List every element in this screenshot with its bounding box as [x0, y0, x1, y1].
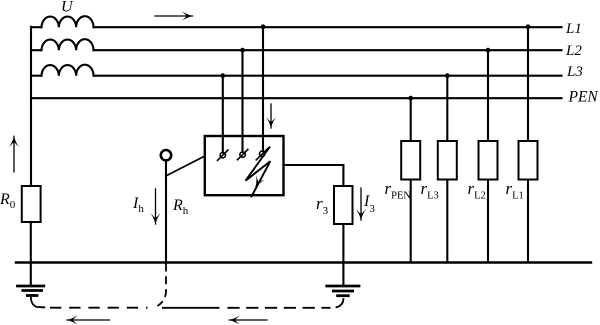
- contact c2: [237, 149, 248, 159]
- current arrow I3: [360, 188, 362, 220]
- tap wire rL3: [446, 76, 448, 141]
- tap wire rPEN: [410, 98, 412, 141]
- tap wire to enclosure from L3: [222, 76, 224, 153]
- junction dots: [220, 24, 530, 100]
- fault lightning arrow: [246, 147, 271, 196]
- up arrow left: [13, 136, 15, 172]
- resistor rL2: [479, 141, 498, 180]
- hook left ground to path: [31, 298, 45, 308]
- wire line PEN: [31, 97, 562, 99]
- tap wire to enclosure from L2: [241, 50, 243, 152]
- resistor rL3: [438, 141, 457, 180]
- winding L3: [42, 65, 94, 76]
- resistor r3: [334, 186, 353, 224]
- resistor R0: [22, 186, 41, 222]
- winding stub L2: [31, 49, 42, 51]
- wire line L3: [94, 75, 562, 77]
- dashed fault-current return path: [50, 264, 331, 308]
- svg-text:L1: L1: [565, 21, 582, 37]
- winding L1: [42, 16, 94, 27]
- ground (neutral earth) stem: [30, 263, 32, 285]
- resistor rL1: [519, 141, 538, 180]
- wire line L1: [94, 26, 562, 28]
- person body Rh: [165, 161, 167, 263]
- current arrow into enclosure: [270, 104, 272, 128]
- person arm: [167, 156, 205, 176]
- ground (r3 earth) stem: [342, 263, 344, 285]
- resistor rPEN: [401, 141, 420, 180]
- ground bus: [16, 261, 591, 263]
- return current arrow left: [67, 319, 110, 321]
- svg-text:L3: L3: [566, 64, 583, 80]
- wire R0 to ground bus: [30, 222, 32, 263]
- source left bus: [30, 27, 32, 186]
- winding stub L3: [31, 75, 42, 77]
- ground (neutral earth) bars: [18, 286, 44, 296]
- tap wire to enclosure from L1: [262, 27, 264, 151]
- current arrow top: [155, 15, 193, 17]
- person head: [161, 150, 171, 160]
- contact c3: [256, 148, 268, 160]
- current arrow Ih: [155, 189, 157, 224]
- winding stub L1: [31, 26, 42, 28]
- tap wire rL2: [487, 50, 489, 141]
- wire r3 to ground bus: [342, 224, 344, 263]
- tap wire rL1: [527, 27, 529, 141]
- svg-text:U: U: [61, 0, 74, 16]
- hook r3 ground to path: [337, 299, 344, 307]
- svg-text:PEN: PEN: [568, 89, 600, 106]
- wire rPEN to bus: [410, 180, 412, 263]
- enclosure box U1: [205, 136, 284, 195]
- contact c1: [218, 150, 229, 160]
- wire rL3 to bus: [446, 180, 448, 263]
- svg-text:L2: L2: [565, 43, 582, 59]
- winding L2: [42, 39, 94, 50]
- wire rL1 to bus: [527, 180, 529, 263]
- wire line L2: [94, 49, 562, 51]
- wire rL2 to bus: [487, 180, 489, 263]
- wire enclosure to r3: [284, 165, 344, 186]
- ground (r3 earth) bars: [327, 286, 359, 296]
- return current arrow middle: [229, 319, 267, 321]
